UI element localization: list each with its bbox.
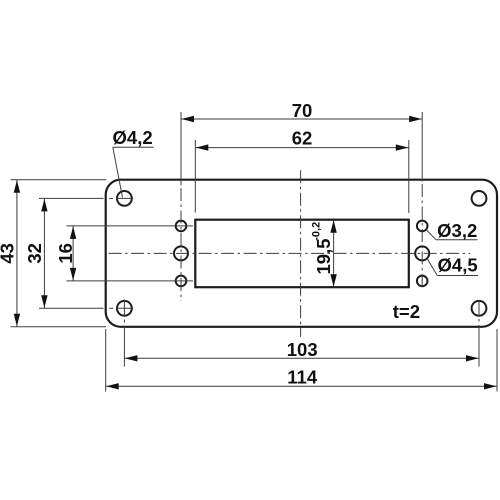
dimension line 43 — [16, 180, 18, 327]
extension line 62 left — [194, 140, 196, 213]
arrow 103 right — [466, 355, 479, 361]
hole D4.5 left-middle — [174, 246, 188, 260]
hole D4.2 top-right — [472, 191, 487, 206]
arrow 43 top — [14, 180, 20, 193]
arrow 62 right — [396, 144, 409, 150]
arrow 16 bottom — [70, 268, 76, 281]
plate outline — [106, 180, 497, 327]
svg-text:62: 62 — [292, 128, 313, 149]
leader D4,5 — [427, 258, 478, 275]
extension line 62 right — [408, 140, 410, 213]
extension line 70 left — [180, 112, 182, 186]
hole D4.2 bottom-left — [117, 301, 132, 316]
svg-text:103: 103 — [287, 339, 318, 360]
leader D4,2 — [113, 147, 154, 197]
extension line 16 top — [67, 225, 194, 227]
arrow 16 top — [70, 226, 76, 239]
right hole column center line — [421, 184, 423, 288]
hole D4.2 top-left — [117, 191, 132, 206]
hole D3.2 left-bottom — [176, 276, 187, 287]
dimension line 114 — [106, 385, 497, 387]
extension line 70 right — [421, 112, 423, 182]
left hole column center line — [180, 188, 182, 301]
hole D3.2 right-bottom — [417, 276, 428, 287]
arrow 70 right — [409, 116, 422, 122]
hole D3.2 right-top — [417, 221, 428, 232]
vertical center line — [300, 170, 302, 337]
arrow 62 left — [196, 144, 209, 150]
panel cutout — [195, 220, 408, 288]
svg-text:114: 114 — [287, 367, 318, 388]
svg-text:Ø4,2: Ø4,2 — [113, 127, 153, 148]
arrow 32 top — [41, 199, 47, 212]
dimension line 62 — [195, 147, 408, 149]
arrow 114 left — [106, 383, 119, 389]
arrow 32 bottom — [41, 295, 47, 308]
svg-text:70: 70 — [292, 100, 313, 121]
svg-text:Ø3,2: Ø3,2 — [437, 220, 477, 241]
leader D3,2 — [426, 229, 478, 239]
arrow 19.5 bottom — [330, 274, 336, 287]
arrow 19.5 top — [330, 220, 336, 233]
extension line 103 left — [123, 300, 125, 367]
dimension line 32 — [43, 198, 45, 308]
svg-text:16: 16 — [55, 243, 76, 264]
extension line 103 right — [478, 300, 480, 367]
svg-text:t=2: t=2 — [393, 301, 420, 322]
horizontal center line — [109, 252, 470, 254]
arrow 43 bottom — [14, 314, 20, 327]
extension line 32 top — [39, 197, 133, 199]
arrow 103 left — [125, 355, 137, 361]
svg-text:-0,2: -0,2 — [311, 222, 323, 241]
svg-text:19,5: 19,5 — [313, 238, 334, 274]
dimension line 103 — [124, 357, 479, 359]
arrow 114 right — [484, 383, 497, 389]
svg-text:32: 32 — [24, 243, 45, 264]
hole D4.5 right-middle — [415, 246, 429, 260]
extension line 43 top — [11, 179, 107, 181]
extension line 114 right — [496, 329, 498, 392]
extension line 16 bottom — [67, 280, 194, 282]
arrow 70 left — [182, 116, 195, 122]
svg-text:43: 43 — [0, 243, 18, 264]
dimension line 70 — [181, 118, 422, 120]
hole D3.2 left-top — [176, 221, 187, 232]
svg-text:Ø4,5: Ø4,5 — [438, 255, 478, 276]
extension line 114 left — [105, 329, 107, 392]
extension line 32 bottom — [39, 307, 133, 309]
hole D4.2 bottom-right — [472, 301, 487, 316]
extension line 43 bottom — [11, 326, 107, 328]
dimension line 16 — [72, 226, 74, 281]
dimension line 19.5 — [333, 220, 335, 288]
